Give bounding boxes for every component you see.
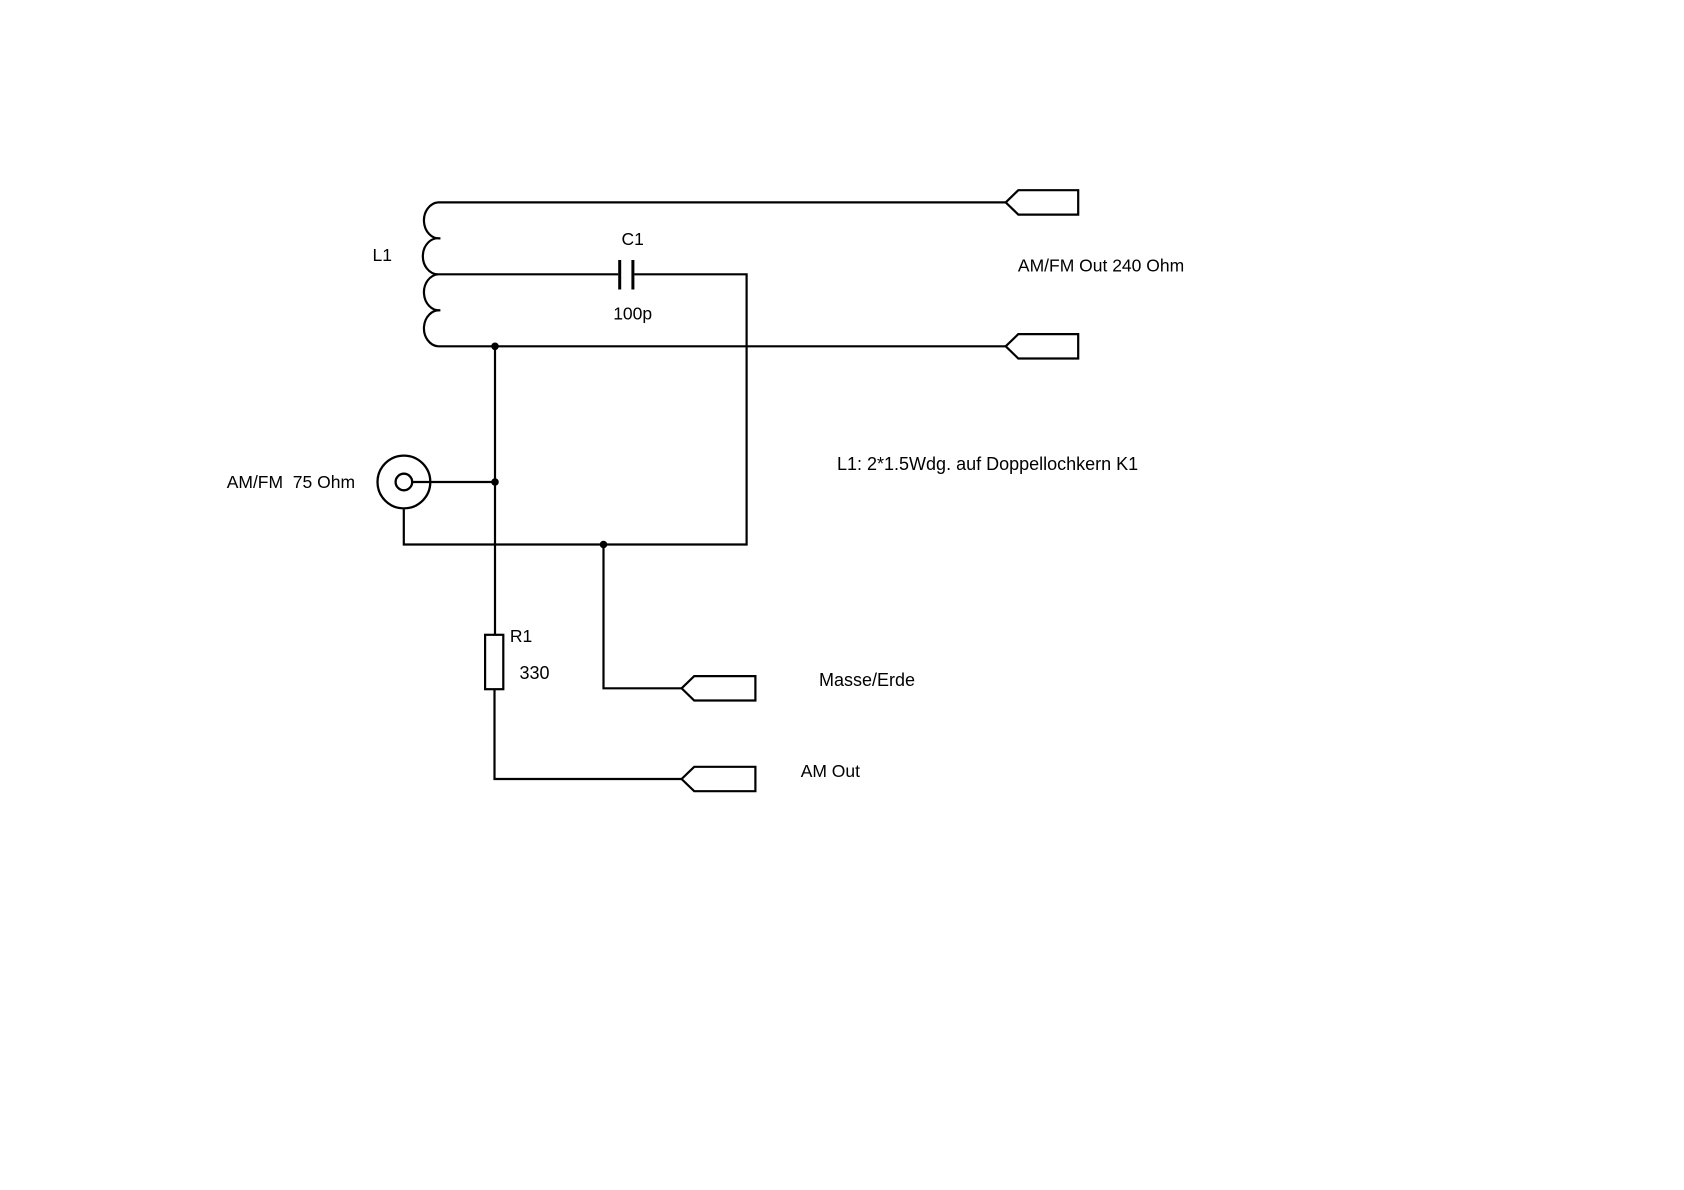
connector J1 AM/FM 75 Ohm outer circle bbox=[378, 456, 431, 509]
wire vertical main (coil bottom junction down to R1 top) bbox=[494, 346, 496, 634]
svg-text:AM/FM 75 Ohm: AM/FM 75 Ohm bbox=[227, 472, 355, 492]
svg-text:L1: 2*1.5Wdg. auf Doppellochke: L1: 2*1.5Wdg. auf Doppellochkern K1 bbox=[837, 454, 1138, 474]
svg-text:R1: R1 bbox=[510, 626, 532, 646]
svg-text:AM Out: AM Out bbox=[801, 761, 860, 781]
svg-text:AM/FM Out 240 Ohm: AM/FM Out 240 Ohm bbox=[1018, 256, 1184, 276]
wire from C1 right plate, right, down, left to connector bottom bbox=[404, 274, 747, 544]
node junction masse branch bbox=[600, 541, 608, 549]
wire middle (coil tap to C1 left plate) bbox=[438, 273, 618, 275]
wire masse branch down and right to flag bbox=[604, 545, 682, 689]
svg-text:Masse/Erde: Masse/Erde bbox=[819, 670, 915, 690]
node junction connector pin / vertical bbox=[491, 478, 499, 486]
wire bottom (coil bottom terminal to flag 2) bbox=[438, 345, 1006, 347]
wire connector center pin to vertical line bbox=[413, 481, 495, 483]
flag terminal AM Out bbox=[682, 767, 756, 791]
resistor R1 body bbox=[485, 635, 503, 689]
wire top (coil top terminal to AM/FM Out flag 1) bbox=[438, 201, 1006, 203]
svg-text:L1: L1 bbox=[373, 245, 392, 265]
flag terminal AM/FM Out (top) bbox=[1006, 190, 1078, 214]
svg-text:C1: C1 bbox=[622, 229, 644, 249]
capacitor C1 left plate bbox=[618, 260, 621, 290]
svg-text:330: 330 bbox=[520, 663, 550, 683]
wire R1 bottom to AM Out flag bbox=[495, 690, 682, 779]
node junction on bottom coil wire bbox=[491, 343, 499, 351]
flag terminal AM/FM Out (bottom) bbox=[1006, 334, 1078, 358]
connector J1 inner circle bbox=[396, 474, 413, 491]
flag terminal Masse/Erde bbox=[682, 676, 756, 700]
capacitor C1 right plate bbox=[631, 260, 634, 290]
inductor L1 (two windings, loop style) bbox=[423, 202, 440, 346]
svg-text:100p: 100p bbox=[613, 304, 652, 324]
